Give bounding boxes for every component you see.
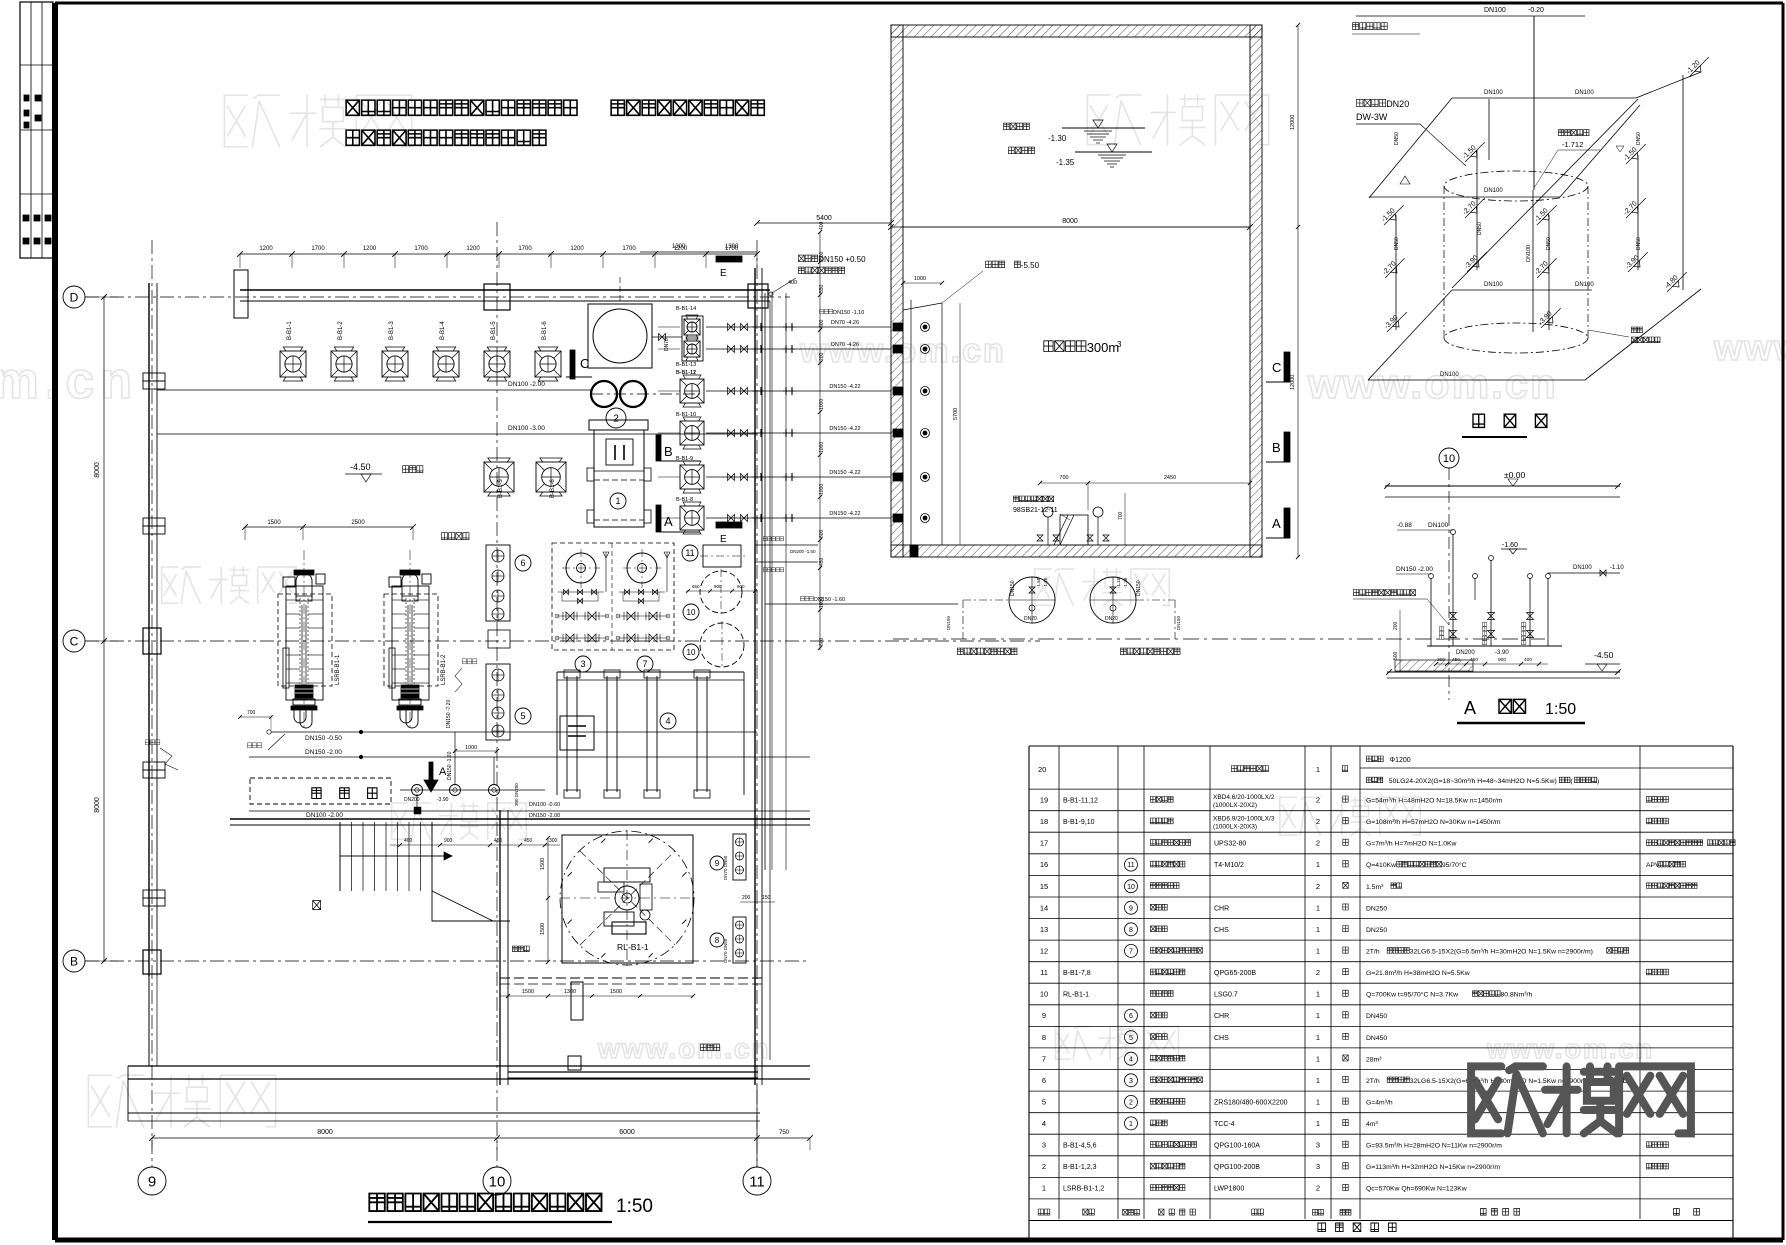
svg-text:1:50: 1:50 (1545, 701, 1576, 718)
svg-text:28m³: 28m³ (1366, 1056, 1382, 1063)
sheet border frame (55, 2, 1783, 5)
column at grid 9/D area (234, 270, 248, 318)
label circle 1 (610, 493, 626, 509)
pipe DN150 run 4 (706, 432, 891, 434)
svg-text:ZRS180/480-600X2200: ZRS180/480-600X2200 (1214, 1100, 1288, 1107)
softener tanks item2 circle a (591, 381, 617, 407)
soft water tank item1 (589, 420, 648, 430)
svg-text:1700: 1700 (622, 246, 636, 252)
svg-text:200: 200 (742, 895, 751, 901)
ladder note (1013, 496, 1018, 502)
aview manifold bottom line (1427, 645, 1562, 647)
svg-text:400: 400 (1524, 657, 1532, 663)
svg-text:-1.35: -1.35 (1056, 158, 1075, 167)
svg-text:1200: 1200 (259, 246, 273, 252)
svg-text:B-B1-10: B-B1-10 (676, 412, 696, 418)
pump valve row 2 (617, 637, 669, 639)
pump B-B1-5 (484, 351, 510, 377)
svg-text:1000: 1000 (819, 597, 825, 608)
svg-text:8000: 8000 (1062, 218, 1078, 225)
table row 15 (1029, 896, 1733, 898)
svg-text:DN200: DN200 (404, 797, 420, 803)
table row 10 (1029, 1004, 1733, 1006)
riser DN150 -1.60 vertical (454, 732, 456, 785)
svg-text:2: 2 (1316, 968, 1320, 977)
svg-text:700: 700 (1118, 511, 1124, 520)
label circle 4 (660, 713, 676, 729)
watermark dark 欧模网 (1471, 1066, 1543, 1133)
svg-text:DN100: DN100 (1484, 188, 1503, 194)
section mark A plan (656, 505, 661, 532)
grid circle 9 (138, 1167, 166, 1195)
svg-text:-0.20: -0.20 (1528, 7, 1544, 14)
label circle 11 plan (682, 545, 698, 561)
E section mark top (716, 256, 742, 262)
pool wall sleeve 4 (893, 429, 903, 437)
pump B-B1-3 (382, 351, 408, 377)
svg-text:300: 300 (549, 838, 558, 844)
svg-text:-5.50: -5.50 (1021, 261, 1040, 270)
svg-text:B-B1-8: B-B1-8 (676, 497, 693, 503)
svg-text:5: 5 (520, 711, 525, 721)
svg-text:700: 700 (247, 710, 256, 716)
feed valve row (558, 591, 604, 593)
pump B-B1 row y349 (684, 341, 700, 357)
persp note 接至雨淋阀 (1353, 23, 1359, 30)
pipe DN150 -2.00 (249, 756, 810, 758)
svg-text:1700: 1700 (518, 246, 532, 252)
pipe DN150 -0.50 (271, 731, 757, 733)
svg-text:8: 8 (715, 936, 720, 945)
svg-text:1500: 1500 (540, 858, 546, 870)
svg-text:DN100: DN100 (1484, 282, 1503, 288)
svg-text:B: B (70, 954, 78, 968)
svg-text:DN150 -4.22: DN150 -4.22 (829, 384, 860, 390)
persp small triangle marker (1400, 176, 1410, 184)
svg-text:B-B1-9,10: B-B1-9,10 (1063, 819, 1095, 826)
left wall pilasters (143, 373, 165, 381)
svg-text:4: 4 (1129, 1056, 1133, 1063)
svg-text:550: 550 (819, 284, 825, 293)
svg-text:11: 11 (685, 548, 694, 558)
svg-text:DN100 -2.00: DN100 -2.00 (306, 812, 343, 819)
svg-text:DN50: DN50 (1546, 237, 1552, 250)
grid line B horizontal (85, 960, 810, 962)
svg-text:CHS: CHS (1214, 1035, 1229, 1042)
vertical riser pair (764, 293, 766, 870)
dashed connectors to mains (963, 599, 1009, 601)
boiler circle dashed (560, 831, 694, 965)
svg-text:10: 10 (489, 1173, 506, 1190)
pool outlet 2 (921, 345, 930, 354)
svg-text:E: E (720, 534, 727, 545)
svg-text:T4-M10/2: T4-M10/2 (1214, 862, 1244, 869)
label circle 9 item (710, 856, 724, 870)
small square column (568, 1056, 581, 1070)
manifold item5 lower (486, 664, 510, 740)
bottom walls left cap (127, 1066, 129, 1121)
svg-text:DN150 -2.00: DN150 -2.00 (305, 749, 342, 756)
svg-text:1300: 1300 (672, 244, 686, 250)
wall left lower vertical (499, 810, 501, 1085)
note text line 1 (346, 100, 359, 115)
svg-text:Q=700Kw t=95/70°C N=3.7Kw: Q=700Kw t=95/70°C N=3.7Kw (1366, 991, 1458, 999)
pipe DN150 run 3 (706, 390, 891, 392)
svg-text:B-B1-1: B-B1-1 (287, 321, 293, 340)
svg-text:3: 3 (1042, 1141, 1046, 1150)
svg-text:1200: 1200 (570, 246, 584, 252)
pump B-B1-2 (331, 351, 357, 377)
svg-text:2: 2 (1316, 882, 1320, 891)
svg-text:DN150 -4.22: DN150 -4.22 (829, 426, 860, 432)
pipe DN100 -2.00 (249, 810, 810, 812)
svg-text:B-B1-4,5,6: B-B1-4,5,6 (1063, 1143, 1097, 1150)
svg-text:2: 2 (613, 414, 619, 425)
svg-text:DN50: DN50 (1394, 237, 1400, 250)
svg-text:DN150: DN150 (946, 615, 951, 630)
svg-text:C: C (70, 634, 79, 648)
label circle 7 (637, 656, 653, 672)
label circle 2 (606, 408, 626, 428)
manifold item6 upper (486, 545, 510, 621)
svg-text:DN100: DN100 (1484, 90, 1503, 96)
riser from -2.00 line (493, 757, 495, 785)
svg-text:1: 1 (1042, 1184, 1046, 1193)
watermark light 欧模网 top-left (224, 95, 279, 147)
svg-text:7: 7 (1129, 949, 1133, 956)
svg-text:2: 2 (1316, 817, 1320, 826)
table row 8 (1029, 1047, 1733, 1049)
svg-text:B-B1-12: B-B1-12 (676, 370, 696, 376)
column at 9/C (143, 628, 161, 654)
grid line 10 vertical (496, 222, 498, 1167)
persp center vertical pipe (1533, 16, 1535, 190)
svg-text:1: 1 (1316, 1076, 1320, 1085)
tank box with bars (560, 716, 594, 750)
left title strip (20, 2, 53, 258)
persp long diagonal pipe (1452, 99, 1638, 288)
persp note 锅炉顶标高 (1559, 130, 1564, 136)
svg-text:C: C (1272, 360, 1281, 375)
top dimension line 1200 spacing (240, 253, 757, 255)
grid circle 11 (743, 1167, 771, 1195)
tank vent valve (666, 552, 668, 592)
connect note 1 (145, 740, 149, 745)
svg-text:DN100 -2.00: DN100 -2.00 (508, 381, 545, 388)
svg-text:DN250: DN250 (1366, 905, 1387, 912)
svg-text:2: 2 (1129, 1100, 1133, 1107)
pump B-B1 row y433 (680, 421, 704, 445)
heat pump unit LSRB-B1-2 (409, 550, 411, 730)
svg-text:G=108m³/h H=57mH2O N=30Kw n=14: G=108m³/h H=57mH2O N=30Kw n=1450r/m (1366, 819, 1501, 826)
pump B-B1 row y518 (680, 506, 704, 530)
svg-text:-1.10: -1.10 (1610, 565, 1624, 571)
svg-text:1: 1 (1316, 1033, 1320, 1042)
note text line 2 (346, 130, 359, 145)
persp inner vertical DN100 (1532, 190, 1534, 332)
svg-text:1: 1 (1316, 947, 1320, 956)
pump B-B1-1 (280, 351, 306, 377)
svg-text:RL-B1-1: RL-B1-1 (1063, 992, 1089, 999)
watermark light 欧模网 mid pool bottom (1035, 569, 1074, 605)
tank channel 1 (566, 676, 568, 792)
svg-text:18: 18 (1040, 817, 1048, 826)
svg-text:B-B1-3: B-B1-3 (389, 321, 395, 340)
svg-text:-1.58: -1.58 (1036, 577, 1041, 588)
svg-text:UPS32-80: UPS32-80 (1214, 841, 1246, 848)
svg-text:8000: 8000 (94, 797, 101, 813)
aview bottom ground (1387, 671, 1620, 673)
inner wall line right side (769, 301, 771, 1060)
feed valve row (619, 591, 665, 593)
svg-text:1500: 1500 (540, 923, 546, 935)
submersible pump pipe (765, 603, 958, 605)
aview floor hatch strip (1395, 660, 1473, 671)
svg-text:G=4m³/h: G=4m³/h (1366, 1100, 1393, 1107)
vertical line to circle 11 (756, 1085, 758, 1167)
svg-text:DN70 DN50: DN70 DN50 (723, 938, 728, 963)
dim line below pad (500, 995, 693, 997)
svg-text:2T/h: 2T/h (1366, 1078, 1380, 1085)
pressure tank donut item7 (627, 553, 657, 583)
left dimension line D-C-B (103, 297, 105, 961)
svg-text:E: E (720, 268, 727, 279)
pipe DN200 feed a (755, 544, 818, 546)
pool right dim line (1297, 25, 1299, 557)
persp note 水雾喷头 (1357, 99, 1364, 106)
svg-text:DN20: DN20 (1386, 99, 1409, 109)
dim 1000 pool left (903, 282, 942, 284)
svg-text:(1000LX-20X2): (1000LX-20X2) (1213, 802, 1257, 809)
main labels (958, 648, 964, 655)
svg-text:-1.28: -1.28 (1123, 577, 1128, 588)
persp elevation flags (1460, 137, 1488, 165)
junction black square (414, 807, 421, 814)
svg-text:-1.60: -1.60 (1502, 542, 1518, 549)
svg-text:900: 900 (444, 838, 453, 844)
svg-text:DN20: DN20 (1105, 616, 1118, 622)
svg-text:8: 8 (1042, 1033, 1046, 1042)
svg-text:A: A (439, 766, 447, 778)
pump valve row 1 (617, 615, 669, 617)
svg-text:1.5m³: 1.5m³ (1366, 884, 1384, 891)
svg-text:1700: 1700 (311, 246, 325, 252)
svg-text:2450: 2450 (1164, 475, 1176, 481)
pool wall sleeve 2 (893, 345, 903, 353)
top wall (240, 289, 770, 291)
water level symbol (1062, 127, 1145, 129)
svg-text:DN150 -4.22: DN150 -4.22 (829, 511, 860, 517)
svg-text:1: 1 (1316, 765, 1320, 774)
svg-text:10: 10 (1127, 884, 1135, 891)
pump suction stubs (658, 326, 680, 328)
pool wall sleeve 5 (893, 473, 903, 481)
svg-text:D: D (70, 290, 79, 304)
svg-text:DN50: DN50 (1636, 237, 1642, 250)
svg-text:QPG65-200B: QPG65-200B (1214, 970, 1256, 977)
svg-text:6: 6 (1042, 1076, 1046, 1085)
svg-text:10: 10 (1443, 453, 1455, 465)
svg-text:RL-B1-1: RL-B1-1 (617, 942, 649, 952)
persp title 透视图 (1473, 414, 1485, 427)
svg-text:www.om.cn: www.om.cn (597, 1033, 771, 1064)
svg-text:20: 20 (1038, 765, 1046, 774)
sump label (986, 261, 992, 268)
svg-text:1:50: 1:50 (616, 1196, 653, 1217)
svg-text:1000: 1000 (819, 399, 825, 410)
label 冷冻机房 (442, 533, 448, 540)
svg-text:400: 400 (819, 221, 825, 230)
svg-text:XBD4.6/20-1000LX/2: XBD4.6/20-1000LX/2 (1213, 794, 1275, 801)
aview grid circle 10 (1439, 448, 1459, 468)
bottom dim line (152, 1137, 810, 1139)
svg-text:DN70 -4.26: DN70 -4.26 (831, 320, 859, 326)
svg-text:1000: 1000 (819, 442, 825, 453)
svg-text:2: 2 (1316, 796, 1320, 805)
svg-text:4: 4 (665, 716, 670, 726)
staircase (339, 822, 341, 891)
svg-text:6: 6 (520, 558, 525, 568)
persp riser columns (1395, 215, 1397, 330)
table row 3 (1029, 1155, 1733, 1157)
svg-text:B-B1-6: B-B1-6 (542, 321, 548, 340)
pump B-B1 row y391 (680, 379, 704, 403)
svg-text:B-B1-14: B-B1-14 (676, 306, 696, 312)
pump pair enclosure box (682, 316, 703, 361)
offset line x786 (785, 293, 787, 870)
svg-text:DN100: DN100 (1575, 90, 1594, 96)
column at 9/B (143, 950, 161, 974)
persp note 锅炉外观轮廓线 (1631, 327, 1636, 333)
dim 5700 vertical (959, 303, 961, 545)
watermark light 欧模网 mid plan (392, 803, 431, 839)
svg-text:B-B1-7,8: B-B1-7,8 (1063, 970, 1091, 977)
svg-text:B: B (664, 444, 673, 459)
svg-text:±0.00: ±0.00 (1504, 470, 1525, 480)
svg-text:www.: www. (1713, 327, 1786, 368)
dashed water main below pool (893, 638, 1545, 640)
svg-text:1700: 1700 (414, 246, 428, 252)
svg-text:13: 13 (1040, 925, 1048, 934)
table row 13 (1029, 939, 1733, 941)
tank dashed circle upper (700, 571, 742, 613)
svg-text:om.cn: om.cn (0, 352, 138, 410)
grid line 9 vertical (151, 240, 153, 1167)
pool outlet 6 (921, 514, 930, 523)
svg-text:DN150 -0.50: DN150 -0.50 (305, 735, 342, 742)
dim 700 2450 (1040, 482, 1250, 484)
table row 17 (1029, 853, 1733, 855)
pressurization units dashed enclosure (552, 543, 674, 650)
aview rotated labels (1439, 627, 1444, 640)
E section mark lower (716, 522, 742, 528)
svg-text:CHR: CHR (1214, 905, 1229, 912)
pressure tank donut item3 (566, 553, 596, 583)
column lower (571, 982, 583, 1020)
svg-text:600: 600 (819, 319, 825, 328)
pump valve row 1 (556, 615, 608, 617)
grid circle C (63, 630, 85, 652)
svg-text:DN150 +0.50: DN150 +0.50 (818, 255, 866, 264)
label circle 8 item (710, 933, 724, 947)
svg-text:17: 17 (1040, 839, 1048, 848)
svg-text:5400: 5400 (816, 215, 832, 222)
svg-text:LSRB-B1-2: LSRB-B1-2 (441, 654, 447, 685)
svg-text:1: 1 (615, 496, 620, 506)
table row 16 (1029, 874, 1733, 876)
dim line pad (547, 838, 549, 962)
pump B-B1 row y327 (684, 319, 700, 335)
svg-text:900: 900 (1498, 657, 1506, 663)
svg-text:DN150: DN150 (1010, 580, 1016, 596)
svg-text:www.om.cn: www.om.cn (1307, 360, 1558, 407)
svg-text:7: 7 (642, 659, 647, 669)
aview dim row (1436, 663, 1548, 665)
aview left dims (1399, 610, 1401, 672)
tank T with circle (588, 304, 652, 368)
label circle 10 lower (683, 644, 699, 660)
svg-text:95/70°C: 95/70°C (1442, 861, 1467, 869)
svg-text:DN100: DN100 (1526, 245, 1532, 262)
svg-text:DN450: DN450 (1366, 1035, 1387, 1042)
label up 上 (313, 901, 321, 910)
svg-text:10: 10 (687, 608, 696, 617)
persp plane upper (1369, 98, 1452, 198)
valve pair tank to pumps (652, 336, 682, 338)
watermark light 欧模网 mid-left (162, 567, 201, 603)
svg-text:6000: 6000 (619, 1129, 635, 1136)
svg-text:1300: 1300 (725, 244, 739, 250)
svg-text:98SB21-12-11: 98SB21-12-11 (1013, 507, 1058, 514)
persp top pipe line (1356, 15, 1585, 17)
svg-text:32LG6.5-15X2(G=6.5m³/h H=30mH2: 32LG6.5-15X2(G=6.5m³/h H=30mH2O N=1.5Kw … (1410, 949, 1593, 956)
label circle 6 (515, 555, 531, 571)
table header row (1029, 1220, 1733, 1222)
svg-text:14: 14 (1040, 903, 1048, 912)
svg-text:DN100: DN100 (1575, 282, 1594, 288)
pump sump circle right (1090, 577, 1136, 623)
dim 700 vert (1124, 493, 1126, 545)
aview valves on risers (1450, 613, 1457, 620)
label circle 3 (575, 656, 591, 672)
svg-text:B-B1-2: B-B1-2 (338, 321, 344, 340)
table row 9 (1029, 1025, 1733, 1027)
svg-text:750: 750 (779, 1130, 790, 1136)
left wall vertical (148, 283, 150, 976)
column box at 10/D (484, 284, 510, 310)
dim row small (390, 844, 560, 846)
svg-text:1000: 1000 (914, 276, 926, 282)
svg-text:8000: 8000 (317, 1129, 333, 1136)
svg-text:200: 200 (1393, 621, 1399, 630)
svg-text:1: 1 (1316, 860, 1320, 869)
pipe DN200 feed b (755, 561, 818, 563)
svg-text:-4.50: -4.50 (1594, 650, 1614, 660)
riser strip 9 (733, 834, 746, 880)
svg-text:QPG100-200B: QPG100-200B (1214, 1164, 1260, 1171)
svg-text:650: 650 (692, 584, 700, 589)
svg-text:QPG100-160A: QPG100-160A (1214, 1143, 1260, 1150)
pump valve row 2 (556, 637, 608, 639)
right wall of machine room (754, 268, 756, 1085)
table title row 主要设备表 (1318, 1223, 1326, 1232)
svg-text:A: A (1272, 516, 1281, 531)
pump B-B1-6 lower (536, 462, 566, 492)
svg-text:1: 1 (1316, 925, 1320, 934)
grid line C horizontal (85, 640, 1040, 642)
svg-text:DN150: DN150 (1176, 615, 1181, 630)
suction sump lines (910, 300, 912, 545)
